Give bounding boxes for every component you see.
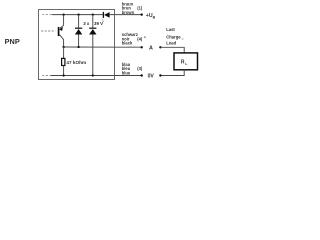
node left zener top junction	[77, 13, 79, 15]
wire 0V rail	[51, 75, 142, 77]
bottom rail dashed stub	[42, 75, 51, 77]
node 0V terminal dot	[141, 74, 143, 76]
svg-text:(4): (4)	[137, 36, 143, 41]
wire A to load	[160, 47, 184, 53]
svg-text:PNP: PNP	[5, 37, 20, 46]
svg-text:A: A	[149, 46, 153, 52]
zener diode Z1 (top rail to output A)	[75, 15, 82, 47]
top rail dashed stub	[42, 14, 52, 16]
wire output rail A	[64, 46, 142, 48]
svg-text:(1): (1)	[137, 6, 143, 11]
wire top rail	[52, 14, 103, 16]
wire base dashed	[41, 30, 55, 32]
svg-text:L: L	[185, 62, 187, 66]
sensor enclosure box	[39, 10, 115, 80]
node load branch A dot	[159, 46, 161, 48]
node emitter junction	[62, 13, 64, 15]
diode D1 series reverse-protection (cathode bar left, pointing left)	[103, 12, 109, 18]
svg-text:1): 1)	[144, 35, 147, 39]
wire diode to border and outside to +UB terminal	[110, 14, 142, 16]
node right zener top junction	[92, 13, 94, 15]
svg-text:3 x: 3 x	[83, 21, 90, 26]
svg-text:B: B	[153, 16, 156, 20]
svg-text:47 kOhm: 47 kOhm	[66, 60, 86, 65]
resistor R1 47k body	[62, 47, 65, 76]
svg-text:Load: Load	[166, 41, 176, 46]
wire emitter	[60, 15, 64, 29]
svg-text:0V: 0V	[148, 73, 155, 79]
wire collector	[60, 35, 64, 47]
node collector junction	[62, 46, 64, 48]
node A terminal dot	[141, 46, 143, 48]
node resistor bottom junction	[62, 74, 64, 76]
svg-text:blue: blue	[122, 70, 131, 75]
svg-text:brown: brown	[122, 10, 135, 15]
transistor emitter arrow (points into base bar, PNP)	[59, 27, 63, 31]
node load branch 0V dot	[159, 74, 161, 76]
wire load to 0V	[160, 70, 184, 76]
svg-text:R: R	[181, 60, 185, 66]
svg-text:(3): (3)	[137, 66, 143, 71]
node +UB terminal dot	[141, 13, 143, 15]
load resistor RL box	[174, 53, 198, 70]
node zener Z2 bottom junction	[92, 74, 94, 76]
node zener Z1 bottom junction	[77, 46, 79, 48]
svg-text:Charge: Charge	[166, 34, 181, 39]
svg-text:1): 1)	[181, 39, 183, 41]
transistor Q1 PNP base bar	[58, 27, 60, 36]
svg-text:Last: Last	[166, 27, 175, 32]
svg-text:1): 1)	[102, 20, 104, 22]
zener diode Z2 (top rail to 0V rail)	[89, 15, 96, 76]
svg-text:black: black	[122, 41, 133, 46]
